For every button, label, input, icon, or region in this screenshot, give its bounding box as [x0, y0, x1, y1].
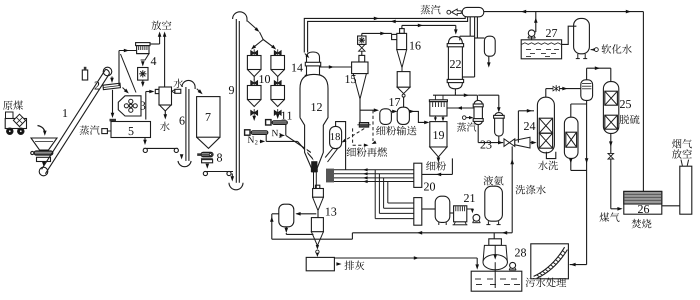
bag filter 4	[136, 43, 150, 46]
hopper discharge feeder	[34, 151, 53, 155]
belt head discharge arrow	[111, 77, 113, 81]
splitter to lock hoppers	[252, 40, 263, 49]
label 15	[346, 75, 350, 83]
scrubber drain arrow	[164, 114, 168, 119]
transport vessel A	[380, 109, 392, 125]
steam injection to 23	[462, 116, 466, 120]
pot 23 bottom line	[477, 125, 479, 143]
arrow filter to star feeder	[141, 61, 145, 66]
label 细粉再燃	[347, 147, 356, 156]
discharge arrow from 5	[144, 138, 146, 143]
slag discharge valve	[316, 245, 319, 250]
syngas cooler column 22	[448, 37, 462, 44]
feedwater tank 27	[521, 40, 561, 59]
label 18	[331, 133, 335, 140]
label 10	[260, 75, 264, 83]
fines hopper 17	[401, 68, 403, 72]
elevator 9 discharge chute	[248, 21, 258, 30]
dashed reburn line horizontal	[353, 144, 366, 146]
steam label 蒸汽 into 5	[80, 125, 90, 134]
receiving hopper	[31, 138, 57, 150]
return line 23 to 19	[447, 107, 474, 109]
wash column 24	[537, 97, 554, 153]
label 煤气	[600, 212, 610, 221]
water inlet of scrubber	[174, 79, 184, 88]
label 11	[282, 112, 286, 120]
dust outlet of 19	[437, 157, 441, 162]
syngas cooler 14	[307, 52, 320, 58]
arrow into elevator 6 boot	[180, 154, 184, 159]
slag lock hopper	[311, 218, 323, 232]
link distributor to buffer drum	[422, 208, 435, 210]
discharge valves of lock hoppers	[251, 110, 255, 115]
label 23	[481, 141, 486, 149]
product gas line to incinerator	[610, 133, 612, 153]
belt conveyor 1	[39, 167, 48, 176]
steam drum	[462, 7, 484, 16]
label 3	[140, 102, 145, 110]
label 9	[229, 86, 234, 94]
feed line right to gasifier	[286, 135, 311, 152]
desulfurizer column 25	[603, 82, 618, 134]
vessel 18 injection legs	[325, 149, 332, 158]
feed arrow into hopper	[38, 126, 45, 133]
line 13 to flush vessel	[297, 213, 317, 215]
arrow 8 to conveyor	[206, 164, 210, 169]
transport vessel B	[397, 107, 409, 124]
quench water long line	[352, 232, 512, 234]
N2 label right	[272, 130, 278, 136]
boiler circulation pipes 14 to steam drum	[304, 17, 465, 53]
ammonia tank	[485, 186, 503, 221]
lower distributor 20	[414, 198, 422, 226]
label 液氨	[484, 176, 494, 186]
settler 28	[489, 239, 502, 246]
dashed diagonal to 18	[343, 129, 364, 142]
knockout drum small	[581, 80, 593, 101]
label 16	[410, 42, 414, 50]
vent label 放空	[152, 21, 162, 30]
dashed reburn line vertical	[372, 110, 374, 141]
vent line from 4	[150, 43, 160, 45]
settler pump	[510, 262, 516, 268]
label 6	[180, 117, 185, 125]
wash water riser to 24	[517, 111, 519, 143]
magnet bottle on belt	[82, 70, 87, 80]
softened water inlet	[591, 48, 596, 52]
weigh feeder 2	[103, 83, 120, 90]
flush vessel drain	[285, 227, 287, 232]
dust pot under 15	[359, 122, 369, 127]
separator vessel	[495, 113, 504, 136]
label 水洗	[538, 161, 548, 170]
pump after 21	[467, 209, 473, 211]
stack	[680, 166, 692, 214]
gas line 19 and 22 to 23	[433, 94, 477, 96]
wet scrubber	[155, 89, 159, 93]
drum top line to incinerator	[484, 11, 644, 13]
feed line left to gasifier	[266, 140, 297, 142]
branch pot to transport vessel	[360, 109, 377, 111]
quench pot 23	[474, 100, 482, 124]
dip tube to slag cyclone	[313, 172, 315, 188]
flush vessel water supply riser	[271, 214, 273, 239]
tank 27 to deaerator line	[562, 26, 577, 44]
desulfurizer feed line	[586, 68, 588, 80]
label 蒸汽 top	[421, 5, 431, 14]
duct riser to bag filter 4	[118, 51, 120, 86]
bucket elevator 6	[178, 161, 191, 167]
arrow to ash label	[336, 262, 341, 266]
buffer drum	[435, 196, 450, 222]
label 17	[390, 98, 394, 106]
washer2 overhead to knockout drum	[570, 104, 572, 117]
gasifier 12	[300, 74, 328, 172]
mill gas riser to scrubber	[145, 92, 147, 120]
N2 label left	[248, 137, 254, 143]
cyclone 16	[392, 34, 399, 39]
deaerator drum	[574, 18, 590, 53]
steam outlet symbol	[447, 10, 451, 14]
settler feed pipe inside	[494, 245, 496, 256]
label 27	[546, 29, 551, 37]
arrow to belt	[42, 162, 46, 167]
gas line to quench pot 23	[476, 94, 478, 96]
quench outlet of gasifier	[311, 161, 317, 172]
gas line 16 to 22	[401, 25, 403, 28]
label 软化水	[602, 44, 612, 53]
label 水 drain	[160, 122, 170, 131]
label 细粉输送	[376, 126, 385, 135]
diagonal brace	[121, 54, 137, 93]
column 24 bottom seal	[546, 152, 555, 159]
vent line from scrubber	[164, 35, 166, 99]
slag cyclone 13	[315, 185, 319, 188]
label 24	[524, 122, 529, 130]
label 排灰	[344, 261, 354, 270]
label 8	[217, 154, 222, 162]
second wash column	[564, 117, 578, 158]
separator outlet to ejector	[498, 136, 500, 143]
screw conveyor under 5	[144, 147, 179, 149]
wastewater line down	[586, 104, 588, 265]
label 蒸汽 at 23	[457, 122, 466, 131]
label 14	[292, 64, 296, 72]
coal truck	[6, 112, 14, 119]
chute 2 to 5	[112, 90, 114, 115]
gas line 14 to cyclone 15	[320, 66, 352, 68]
silo feeder 8	[201, 152, 213, 157]
lower distributor lines	[375, 218, 414, 220]
blower 21	[454, 206, 467, 222]
label 脱硫	[620, 115, 630, 124]
drum downcomers to 22	[469, 17, 471, 36]
basin	[471, 271, 522, 291]
feedwater pump on 27	[531, 36, 533, 39]
label 25	[620, 100, 625, 108]
coal silo 7	[197, 97, 220, 138]
vent line of 18	[336, 122, 346, 170]
line 23 top to separator	[478, 94, 499, 96]
ejector	[504, 139, 509, 147]
bag filter 19	[429, 100, 447, 102]
cyclone 15	[359, 55, 365, 62]
washer2 bottoms	[570, 158, 572, 170]
label 2	[95, 82, 100, 90]
stack link	[662, 205, 680, 207]
label 污水处理	[526, 278, 535, 287]
quench water lines	[334, 169, 414, 171]
label 洗涤水	[516, 185, 526, 194]
star feeder of 4	[138, 68, 148, 81]
label 焚烧	[632, 219, 642, 228]
label 20	[424, 183, 429, 191]
lock hoppers 10 upper pair	[251, 51, 255, 56]
arrow below star feeder	[142, 80, 144, 84]
lock hoppers lower pair	[251, 81, 255, 86]
arrow into mill 3	[123, 88, 128, 92]
transport line A to B	[391, 110, 395, 112]
column 24 overhead line	[545, 89, 547, 98]
incinerator 26	[624, 191, 662, 214]
label 21	[464, 194, 469, 202]
bucket elevator 9	[229, 183, 243, 190]
line 15 to 16	[361, 33, 363, 36]
link drum to blower 21	[450, 212, 454, 214]
dust return line to distributor	[451, 158, 453, 174]
gas out stubs of 19	[434, 95, 436, 100]
feeder with N2 right	[266, 120, 271, 125]
quench ring block	[326, 169, 334, 183]
sewage feed branch into 28	[493, 233, 495, 259]
label 细粉	[426, 161, 435, 170]
blowdown pot	[475, 37, 485, 39]
coal mill 3	[118, 96, 141, 116]
label 1	[63, 109, 67, 117]
upper distributor 20	[414, 163, 422, 187]
transport line B to 19	[409, 111, 427, 122]
slag water line to basin	[334, 257, 477, 259]
curved screen	[534, 247, 565, 276]
slag collection box	[306, 257, 334, 270]
flush water vessel near 13	[279, 204, 294, 227]
fine ash reburn vessel 18	[330, 126, 342, 148]
feeder with N2 left	[245, 130, 250, 135]
wastewater to screen	[570, 264, 587, 266]
ejector water suction riser	[511, 146, 513, 232]
label 13	[326, 208, 330, 216]
conveyor to elevator 9	[204, 171, 233, 173]
label 4	[151, 57, 157, 65]
mill dryer 5	[111, 122, 151, 138]
label 28	[515, 249, 520, 257]
valve and filter above 15	[361, 51, 363, 55]
label raw-coal 原煤	[3, 101, 13, 110]
label 烟气放空	[672, 139, 681, 148]
screen box	[531, 244, 569, 279]
dashed line pot side	[352, 128, 354, 145]
arrow into elevator 9 boot	[231, 174, 233, 179]
